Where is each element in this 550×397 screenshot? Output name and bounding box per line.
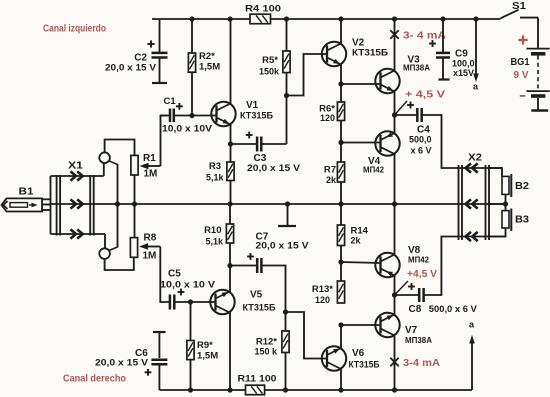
svg-text:КТ315Б: КТ315Б bbox=[349, 360, 381, 370]
wire ground bus (middle rail) bbox=[51, 203, 507, 205]
connector X1 bbox=[57, 161, 94, 239]
speaker B2 bbox=[502, 174, 529, 204]
resistor R5* bbox=[259, 19, 290, 96]
junction C7 / R12 / V6 base bbox=[283, 309, 288, 314]
label 3-4 mA top bbox=[403, 31, 446, 42]
svg-text:Canal izquierdo: Canal izquierdo bbox=[43, 24, 106, 35]
wire +9V top rail (left of R4) bbox=[152, 18, 250, 20]
transistor V5 bbox=[210, 290, 276, 315]
junction R13/R14 / V8 base bbox=[338, 259, 343, 264]
svg-text:10,0 x 10 V: 10,0 x 10 V bbox=[160, 280, 215, 290]
wire V1 emitter to R3 bbox=[230, 125, 232, 163]
svg-text:S1: S1 bbox=[512, 1, 526, 12]
label +4,5V bottom bbox=[407, 269, 437, 280]
wire jack to R8 bbox=[105, 257, 134, 270]
svg-text:V5: V5 bbox=[250, 290, 263, 301]
label Canal derecho bbox=[63, 374, 126, 385]
wire R6-R7 bbox=[340, 121, 342, 163]
svg-text:x 6 V: x 6 V bbox=[411, 146, 432, 156]
svg-text:+4,5 V: +4,5 V bbox=[407, 269, 437, 280]
battery BG1 bbox=[511, 19, 550, 111]
svg-text:20,0 x 15 V: 20,0 x 15 V bbox=[95, 358, 148, 368]
potentiometer R1 bbox=[131, 153, 161, 180]
wire +9V top rail (right of R4) bbox=[271, 18, 501, 20]
wire V2 collector bbox=[340, 19, 342, 44]
svg-text:МП38А: МП38А bbox=[405, 335, 432, 345]
junction V6 emitter / V7 base bbox=[338, 322, 343, 327]
junction rail / R7-R14 bbox=[338, 201, 343, 206]
junction B2/B3 bbox=[503, 201, 508, 206]
wire R7 to ground rail bbox=[340, 182, 342, 204]
wire V5 collector bbox=[229, 312, 231, 390]
resistor R9* bbox=[187, 302, 218, 390]
wire V8 emitter bbox=[394, 275, 396, 295]
jack socket right-ch bbox=[99, 247, 117, 259]
wire to V7 base bbox=[341, 324, 381, 326]
junction V2 emitter / V3 base bbox=[338, 81, 343, 86]
junction bottom rail / R9 bbox=[188, 387, 193, 392]
wire +9V bottom rail (right of R11) bbox=[265, 389, 472, 391]
transistor V7 bbox=[375, 313, 432, 345]
wire X2 bottom row bbox=[489, 236, 506, 238]
wire input row top bbox=[51, 163, 104, 176]
svg-text:2k: 2k bbox=[326, 175, 337, 185]
wire V3 collector bbox=[394, 19, 396, 71]
junction C1 / R2 / V1 base bbox=[189, 113, 194, 118]
svg-text:V1: V1 bbox=[246, 100, 259, 111]
capacitor C1 bbox=[160, 96, 216, 134]
wire V3 emitter bbox=[394, 91, 396, 115]
junction R5 / V2 base / C3 bbox=[284, 93, 289, 98]
wire V6 base bbox=[286, 312, 328, 359]
svg-text:R11 100: R11 100 bbox=[238, 374, 277, 385]
junction top rail / V3 collector bbox=[392, 16, 397, 21]
wire to V8 base bbox=[341, 262, 381, 263]
svg-text:500,0: 500,0 bbox=[409, 135, 432, 145]
svg-text:1,5M: 1,5M bbox=[199, 62, 220, 73]
wire V7 emitter bbox=[394, 295, 396, 315]
potentiometer R8 bbox=[130, 233, 160, 262]
label +4,5V top bbox=[405, 90, 445, 101]
capacitor C6 bbox=[95, 332, 167, 390]
resistor R3 bbox=[206, 161, 234, 183]
svg-text:МП42: МП42 bbox=[408, 255, 429, 265]
wire X2 top row bbox=[489, 167, 502, 169]
svg-text:500,0 x 6 V: 500,0 x 6 V bbox=[429, 304, 477, 314]
svg-text:+ 4,5 V: + 4,5 V bbox=[405, 90, 445, 101]
svg-text:5,1k: 5,1k bbox=[205, 236, 224, 246]
resistor R14 bbox=[337, 225, 368, 246]
svg-text:R8: R8 bbox=[144, 233, 157, 244]
svg-text:1M: 1M bbox=[144, 169, 158, 180]
svg-text:1M: 1M bbox=[143, 251, 157, 262]
label Canal izquierdo bbox=[43, 24, 106, 35]
svg-text:R5*: R5* bbox=[262, 55, 278, 66]
wire B1 terminals bbox=[42, 176, 51, 234]
measuring point X bottom bbox=[390, 358, 398, 366]
svg-text:КТ315Б: КТ315Б bbox=[243, 303, 277, 313]
junction rail / R3-R10 bbox=[227, 201, 232, 206]
svg-text:3-4 mA: 3-4 mA bbox=[403, 358, 440, 369]
node output bottom (+4,5V) bbox=[392, 281, 408, 298]
wire V5 emitter to R10 bbox=[229, 243, 231, 292]
capacitor C8 bbox=[395, 228, 506, 315]
junction bottom rail / V5 bbox=[227, 387, 232, 392]
capacitor C4 bbox=[395, 102, 503, 177]
junction V5 emitter / C7 bbox=[227, 263, 232, 268]
transistor V3 bbox=[375, 55, 430, 94]
resistor R4 bbox=[245, 4, 281, 24]
svg-text:C8: C8 bbox=[409, 304, 422, 315]
wire input row bottom bbox=[51, 234, 106, 248]
junction R6/R7 / V4 base bbox=[338, 140, 343, 145]
junction bottom rail / R12 bbox=[283, 387, 288, 392]
junction top rail / V2 collector bbox=[338, 16, 343, 21]
junction rail / ground stub bbox=[285, 201, 290, 206]
svg-text:КТ315Б: КТ315Б bbox=[352, 48, 389, 58]
resistor R7 bbox=[324, 162, 345, 185]
junction top rail / R5 bbox=[284, 16, 289, 21]
junction rail / V4-V8 bbox=[392, 201, 397, 206]
svg-text:120: 120 bbox=[315, 295, 330, 305]
transistor V1 bbox=[211, 100, 273, 126]
svg-text:X1: X1 bbox=[68, 161, 84, 172]
svg-text:120: 120 bbox=[320, 113, 335, 123]
junction bottom rail / V7 bbox=[392, 387, 397, 392]
junction V1 emitter / C3 bbox=[228, 141, 233, 146]
wire V6 emitter bbox=[340, 325, 342, 348]
junction top rail / C9 bbox=[440, 16, 445, 21]
svg-text:R3: R3 bbox=[209, 161, 221, 172]
wire R14 to rail bbox=[340, 204, 342, 225]
switch S1 bbox=[501, 1, 539, 19]
svg-text:20,0 x 15 V: 20,0 x 15 V bbox=[256, 241, 309, 251]
wire to V4 base bbox=[341, 142, 381, 144]
svg-text:x15V: x15V bbox=[453, 68, 474, 78]
node output top (+4,5V) bbox=[392, 101, 407, 118]
svg-text:Canal derecho: Canal derecho bbox=[63, 374, 126, 385]
svg-text:10,0 x 10V: 10,0 x 10V bbox=[162, 124, 212, 134]
svg-text:R7: R7 bbox=[324, 165, 336, 176]
wire V2 emitter bbox=[340, 64, 342, 102]
svg-text:КТ315Б: КТ315Б bbox=[240, 111, 274, 121]
resistor R11 bbox=[238, 374, 277, 395]
wire V1 collector bbox=[230, 19, 232, 104]
wire R10 to rail bbox=[229, 204, 231, 224]
svg-text:R13*: R13* bbox=[312, 284, 333, 295]
wire V4 emitter bbox=[394, 115, 396, 134]
ground bbox=[278, 204, 296, 226]
resistor R6* bbox=[319, 102, 344, 123]
svg-text:20,0 x 15 V: 20,0 x 15 V bbox=[105, 63, 156, 73]
wire V6 collector bbox=[340, 369, 342, 390]
wire R1 to rail to R8 bbox=[134, 175, 136, 238]
junction top rail / V1 collector bbox=[227, 16, 232, 21]
wire R3 to ground rail bbox=[230, 181, 232, 205]
junction rail / R1-R8 bbox=[132, 201, 137, 206]
speaker B3 bbox=[502, 204, 529, 231]
svg-text:C5: C5 bbox=[168, 269, 181, 280]
svg-text:C1: C1 bbox=[164, 96, 177, 107]
transistor V8 bbox=[375, 245, 429, 277]
jack socket left-ch bbox=[99, 152, 117, 164]
svg-text:2k: 2k bbox=[351, 236, 362, 246]
svg-text:R1: R1 bbox=[143, 153, 156, 164]
svg-text:R4 100: R4 100 bbox=[245, 4, 281, 15]
svg-text:R2*: R2* bbox=[199, 51, 215, 62]
net a (down arrow) bbox=[473, 19, 479, 92]
svg-text:МП42: МП42 bbox=[363, 165, 384, 175]
svg-text:R10: R10 bbox=[204, 225, 221, 236]
wire V4 collector bbox=[394, 154, 396, 205]
label battery + bbox=[518, 35, 527, 44]
resistor R12* bbox=[254, 312, 289, 390]
svg-text:150k: 150k bbox=[259, 67, 280, 77]
capacitor C7 bbox=[230, 232, 309, 313]
junction C5 / R9 / V5 base bbox=[188, 299, 193, 304]
svg-text:9 V: 9 V bbox=[514, 70, 529, 81]
wire V2 base bbox=[287, 54, 328, 96]
junction rail / jack sleeves bbox=[115, 201, 120, 206]
svg-text:1,5M: 1,5M bbox=[197, 351, 218, 362]
svg-text:B1: B1 bbox=[19, 187, 34, 198]
wire V8 collector bbox=[394, 204, 396, 255]
svg-text:BG1: BG1 bbox=[511, 57, 530, 68]
wire jack sleeves to rail bbox=[117, 164, 119, 248]
junction top rail / R2 bbox=[189, 16, 194, 21]
microphone B1 bbox=[2, 187, 43, 212]
label 9 V bbox=[514, 70, 529, 81]
measuring point X top bbox=[390, 30, 398, 38]
svg-text:3- 4 mA: 3- 4 mA bbox=[403, 31, 446, 42]
transistor V4 bbox=[363, 131, 400, 174]
svg-text:R9*: R9* bbox=[197, 340, 213, 351]
svg-text:МП38А: МП38А bbox=[403, 63, 430, 73]
svg-text:B3: B3 bbox=[515, 215, 529, 226]
junction bottom rail / V6 bbox=[338, 387, 343, 392]
svg-text:–: – bbox=[520, 90, 526, 102]
resistor R2* bbox=[188, 19, 220, 116]
wire to V3 base bbox=[341, 83, 381, 85]
svg-text:100,0: 100,0 bbox=[452, 59, 475, 69]
wire R1 wiper to C1 bbox=[161, 116, 167, 167]
transistor V2 bbox=[322, 38, 389, 67]
resistor R13* bbox=[312, 281, 345, 305]
resistor R10 bbox=[204, 224, 234, 246]
label 3-4 mA bottom bbox=[403, 358, 440, 369]
svg-text:B2: B2 bbox=[515, 181, 529, 192]
svg-text:X2: X2 bbox=[468, 153, 482, 164]
capacitor C5 bbox=[160, 269, 216, 310]
wire V7 collector bbox=[394, 335, 396, 390]
transistor V6 bbox=[322, 346, 380, 370]
wire R8 wiper to C5 bbox=[160, 247, 169, 303]
svg-text:5,1k: 5,1k bbox=[206, 173, 225, 183]
svg-text:150 k: 150 k bbox=[254, 347, 278, 357]
capacitor C9 bbox=[429, 19, 474, 80]
wire R13-R14 bbox=[340, 246, 342, 282]
net a (up arrow) bbox=[469, 320, 475, 391]
junction top rail / point a bbox=[473, 16, 478, 21]
wire X2 mid row bbox=[489, 203, 506, 205]
svg-text:20,0 x 15 V: 20,0 x 15 V bbox=[247, 163, 300, 173]
connector X2 bbox=[459, 153, 490, 242]
wire +9V bottom rail (left of R11) bbox=[159, 389, 245, 391]
capacitor C3 bbox=[231, 96, 301, 174]
capacitor C2 bbox=[105, 19, 168, 83]
svg-text:V6: V6 bbox=[352, 348, 365, 359]
wire jack to R1 bbox=[105, 140, 135, 156]
